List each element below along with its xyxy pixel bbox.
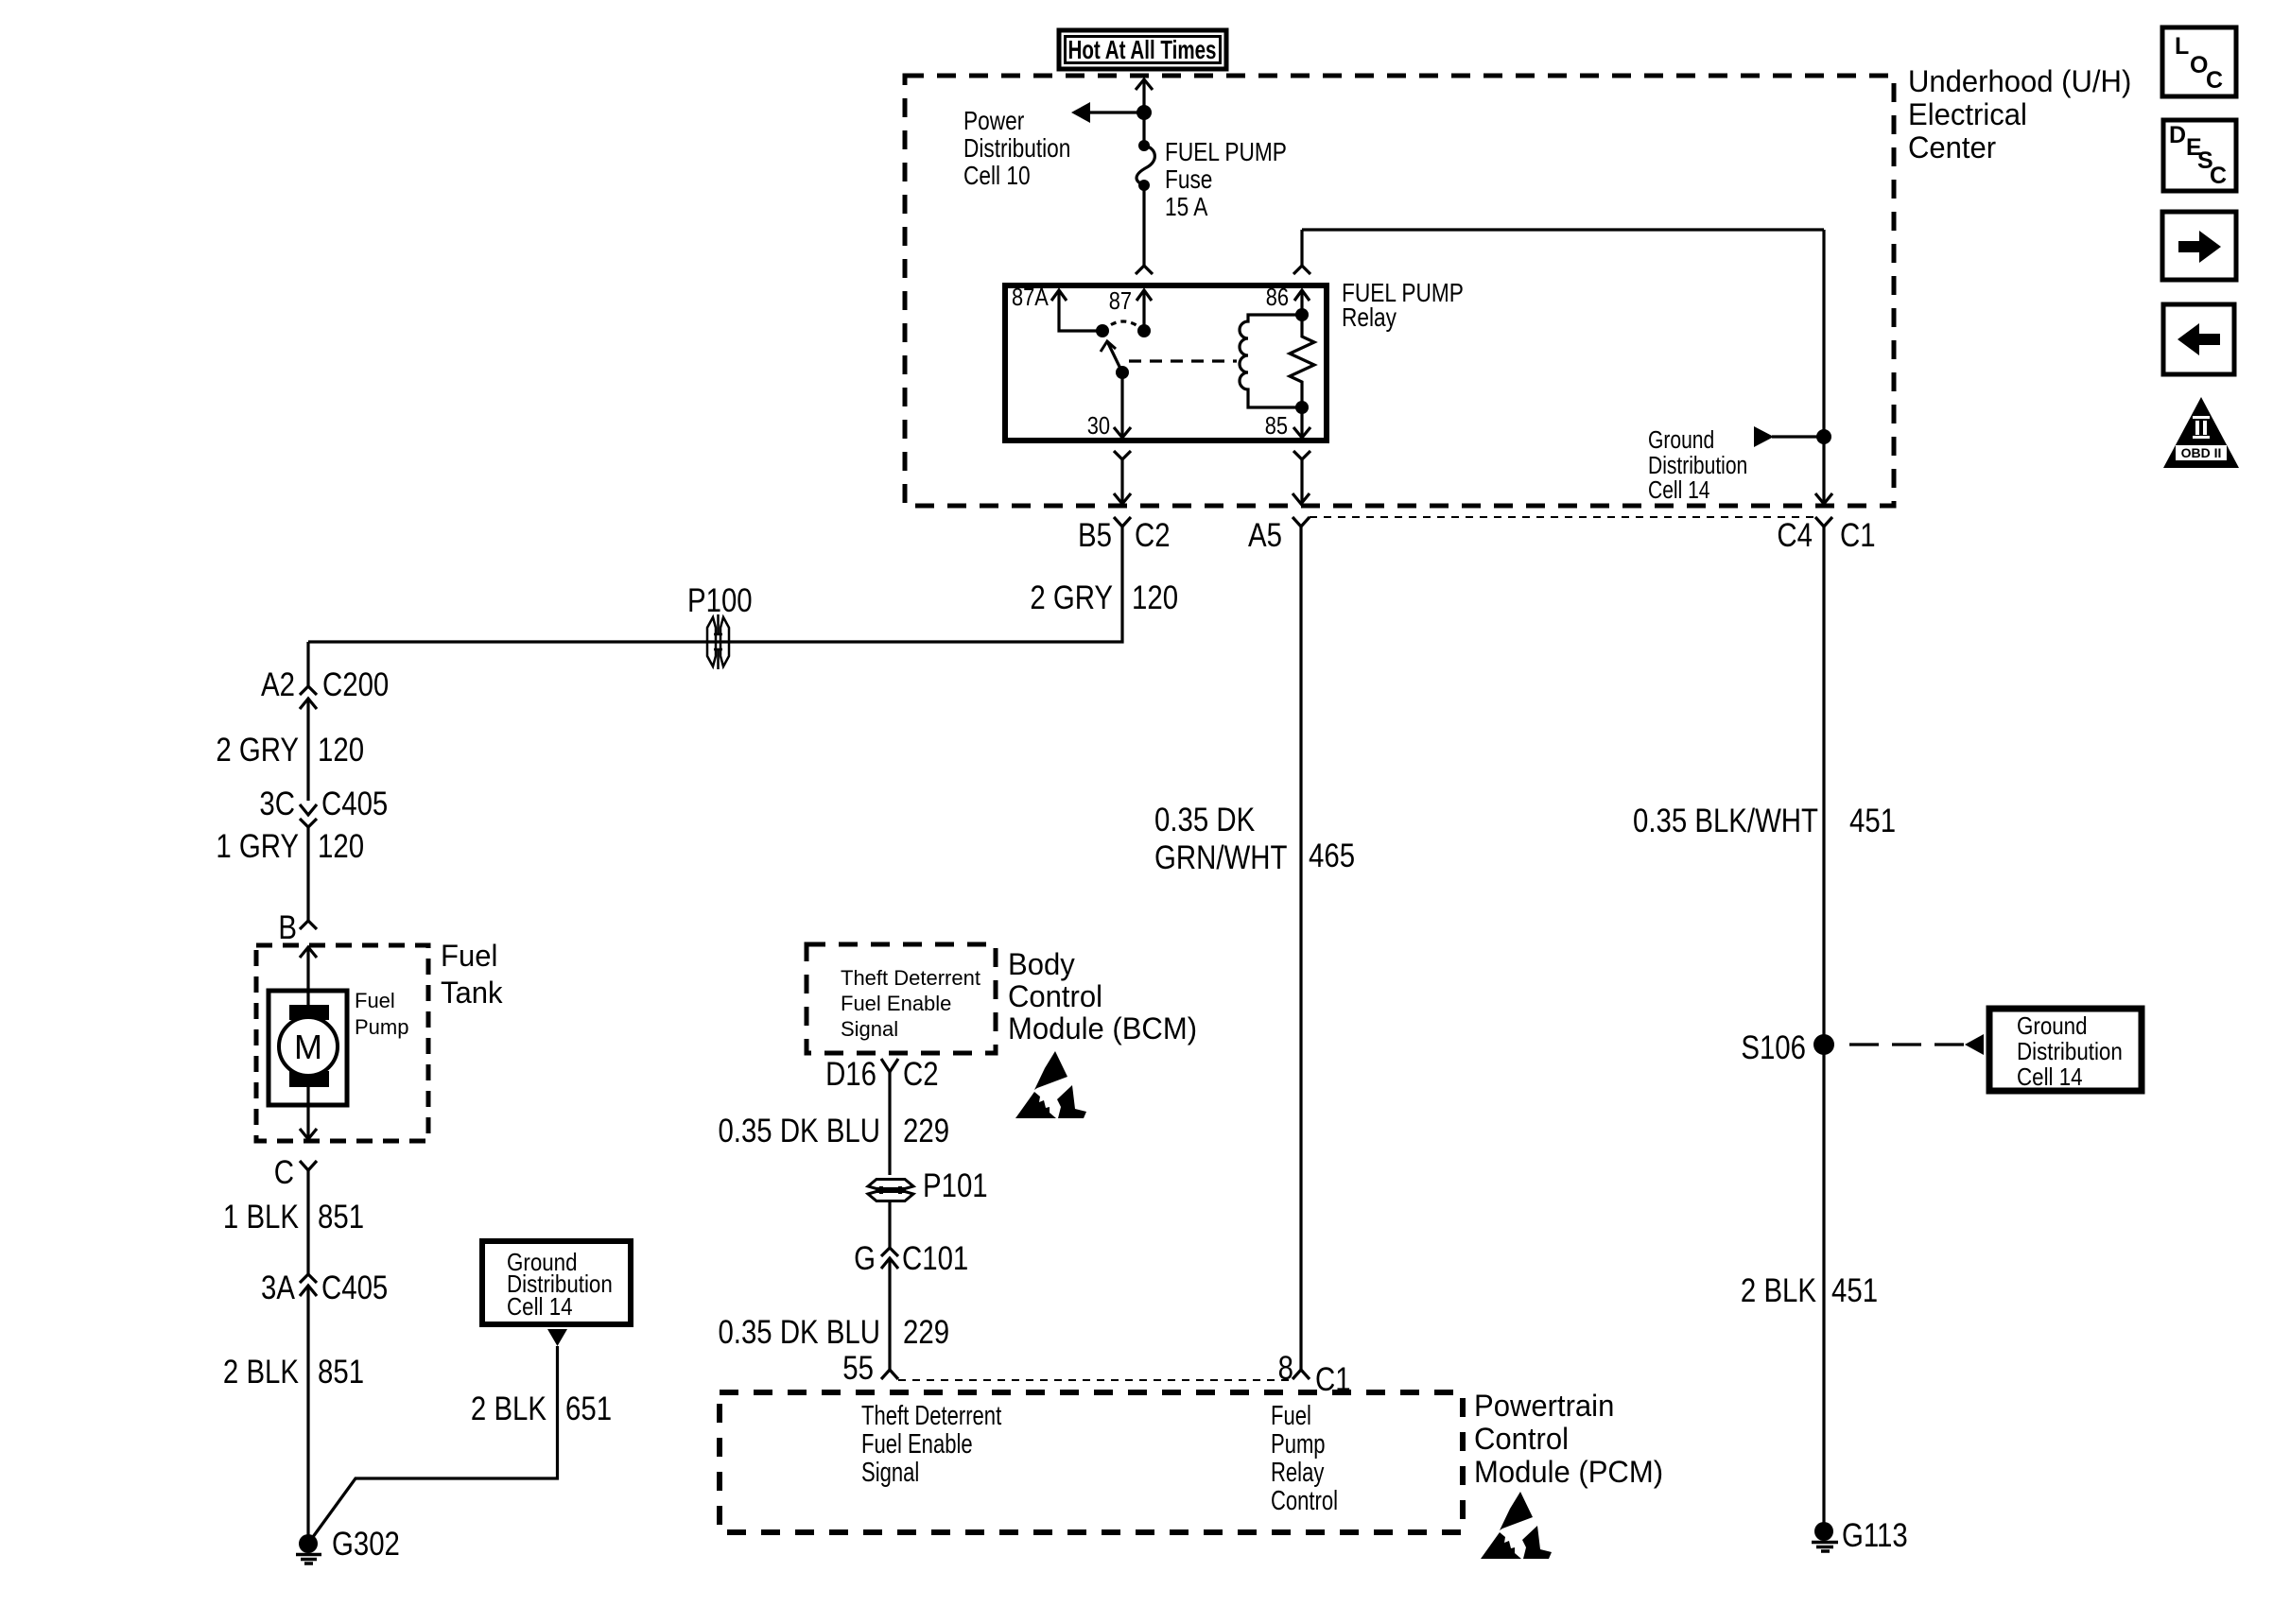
relay coil <box>1240 315 1302 407</box>
svg-text:Fuel: Fuel <box>441 939 497 974</box>
svg-text:G302: G302 <box>332 1526 400 1563</box>
svg-text:2 BLK: 2 BLK <box>223 1354 299 1391</box>
svg-text:0.35 BLK/WHT: 0.35 BLK/WHT <box>1633 803 1818 839</box>
label 2 BLK 651 <box>471 1391 612 1427</box>
dashed actuation line switch to coil <box>1129 359 1237 362</box>
svg-text:Distribution: Distribution <box>2017 1038 2123 1065</box>
svg-text:451: 451 <box>1831 1272 1878 1309</box>
svg-text:M: M <box>294 1028 322 1066</box>
wire Ground Distribution branch in UEC <box>1772 435 1824 438</box>
svg-text:229: 229 <box>903 1113 949 1149</box>
male arrow down at B5 exit <box>1114 493 1131 504</box>
svg-text:C1: C1 <box>1315 1361 1351 1398</box>
wire corner down to A2 <box>306 642 309 686</box>
label 0.35 DK GRN/WHT 465 <box>1154 802 1355 876</box>
svg-text:2 GRY: 2 GRY <box>1030 579 1113 616</box>
ESD symbol BCM <box>1015 1051 1086 1118</box>
svg-text:C: C <box>2206 67 2223 94</box>
motor M circle <box>279 1017 338 1076</box>
svg-text:Tank: Tank <box>441 976 503 1011</box>
thin dashed connector line 55 to 8 <box>898 1379 1293 1381</box>
pin 86 contact (arrow up) <box>1294 290 1310 315</box>
wire right column inside UEC down to border <box>1822 230 1825 504</box>
arrow from Ground Distribution text (solid right triangle) <box>1754 426 1774 447</box>
svg-text:87: 87 <box>1109 287 1132 315</box>
connector A2/C200 (female fork above, male arrow below) <box>300 686 317 801</box>
svg-text:Ground: Ground <box>2017 1012 2088 1040</box>
svg-text:P101: P101 <box>923 1167 988 1204</box>
icon DESC box <box>2163 120 2236 191</box>
svg-text:Pump: Pump <box>355 1015 408 1039</box>
connector female fork above relay pin 86 <box>1293 266 1310 274</box>
svg-text:B5: B5 <box>1078 517 1112 554</box>
svg-text:Power: Power <box>963 107 1025 136</box>
fuse FUEL PUMP 15A <box>1136 140 1154 191</box>
label Fuel Tank <box>441 939 503 1011</box>
pin 87A contact (arrow up and L wire) <box>1051 290 1101 331</box>
box PCM (dashed) <box>720 1392 1463 1532</box>
box Ground Distribution Cell 14 (right) <box>1989 1009 2142 1091</box>
svg-text:Fuel Enable: Fuel Enable <box>841 992 951 1015</box>
connector female fork above relay pin 87 <box>1136 266 1153 274</box>
svg-text:Cell 14: Cell 14 <box>2017 1063 2083 1091</box>
svg-text:Fuel: Fuel <box>355 989 395 1012</box>
box Hot At All Times <box>1059 30 1226 69</box>
connector D16/C2 female fork below BCM <box>881 1059 898 1072</box>
svg-text:Fuel: Fuel <box>1271 1401 1311 1431</box>
dashed reference line S106 to Ground Distribution <box>1849 1043 1965 1045</box>
svg-text:C2: C2 <box>903 1056 939 1093</box>
label 2 BLK 851 <box>223 1354 364 1391</box>
node junction right column <box>1816 429 1831 444</box>
pin 30 wire (pivot to box bottom, arrow down) <box>1114 372 1131 438</box>
svg-text:Module (BCM): Module (BCM) <box>1008 1011 1197 1046</box>
svg-text:C405: C405 <box>321 1270 388 1306</box>
svg-text:8: 8 <box>1278 1350 1293 1387</box>
label 0.35 DK BLU 229 (upper) <box>718 1113 949 1149</box>
svg-text:Ground: Ground <box>1648 427 1714 455</box>
label 0.35 DK BLU 229 (lower) <box>718 1314 949 1351</box>
svg-text:120: 120 <box>318 732 364 769</box>
ground G113 <box>1812 1522 1838 1551</box>
connector G/C101 (female fork above, male arrow below) <box>881 1248 898 1370</box>
wire Power Distribution branch <box>1089 111 1144 113</box>
svg-text:Fuel Enable: Fuel Enable <box>861 1429 973 1460</box>
svg-text:229: 229 <box>903 1314 949 1351</box>
connector female fork below relay pin 85 <box>1293 451 1310 459</box>
svg-text:120: 120 <box>1132 579 1178 616</box>
label Fuel Pump Relay Control (PCM) <box>1271 1401 1338 1516</box>
svg-text:Theft Deterrent: Theft Deterrent <box>861 1401 1001 1431</box>
svg-text:Control: Control <box>1271 1486 1338 1516</box>
svg-text:2 BLK: 2 BLK <box>1741 1272 1816 1309</box>
svg-text:C: C <box>274 1154 294 1191</box>
svg-text:Distribution: Distribution <box>1648 453 1747 480</box>
svg-text:Center: Center <box>1908 130 1996 165</box>
connector C4/C1 female fork <box>1815 517 1832 527</box>
svg-text:P100: P100 <box>687 582 753 619</box>
connector female fork below relay pin 30 <box>1114 451 1131 459</box>
icon left-arrow box <box>2163 304 2234 374</box>
svg-text:Theft Deterrent: Theft Deterrent <box>841 966 980 990</box>
svg-text:Relay: Relay <box>1271 1458 1324 1488</box>
svg-text:851: 851 <box>318 1199 364 1235</box>
svg-text:3C: 3C <box>259 786 295 822</box>
svg-text:Distribution: Distribution <box>963 134 1070 164</box>
svg-text:Hot At All Times: Hot At All Times <box>1068 35 1217 64</box>
label Body Control Module (BCM) <box>1008 947 1197 1046</box>
svg-text:C: C <box>2210 163 2227 189</box>
connector B5/C2 female fork <box>1114 517 1131 527</box>
node coil bottom junction <box>1295 401 1309 414</box>
splice P100 pass-through <box>707 614 729 669</box>
node coil top junction <box>1295 308 1309 321</box>
svg-text:Fuse: Fuse <box>1165 165 1212 195</box>
svg-text:C2: C2 <box>1135 517 1171 554</box>
motor brush top <box>289 1005 329 1020</box>
svg-text:C200: C200 <box>322 666 389 703</box>
box BCM Theft Deterrent Fuel Enable Signal (dashed) <box>807 944 996 1053</box>
svg-text:Pump: Pump <box>1271 1429 1326 1460</box>
svg-text:3A: 3A <box>261 1270 295 1306</box>
svg-text:86: 86 <box>1266 284 1289 311</box>
svg-text:Signal: Signal <box>841 1017 898 1041</box>
label Fuel Pump (small) <box>355 989 408 1039</box>
connector C below fuel tank (female fork) <box>300 1161 317 1170</box>
splice P101 pass-through <box>868 1180 913 1201</box>
svg-text:2 BLK: 2 BLK <box>471 1391 547 1427</box>
svg-text:30: 30 <box>1087 412 1110 440</box>
svg-text:651: 651 <box>565 1391 612 1427</box>
wire C down to 3A <box>306 1170 309 1274</box>
svg-text:Module (PCM): Module (PCM) <box>1474 1455 1663 1490</box>
connector B at fuel tank (female fork above, male arrow below) <box>300 921 317 1017</box>
svg-text:Underhood (U/H): Underhood (U/H) <box>1908 64 2131 99</box>
label 2 BLK 451 <box>1741 1272 1878 1309</box>
wire pin 85 to UEC border <box>1300 459 1303 502</box>
wire A5 down to PCM pin 8 <box>1299 527 1302 1370</box>
wire down to relay pin 86 <box>1300 230 1303 266</box>
male arrow down at C4 exit <box>1815 493 1832 504</box>
svg-text:87A: 87A <box>1012 284 1049 311</box>
wire B5 down to corner and left to P100 <box>308 527 1122 642</box>
ESD symbol PCM <box>1481 1492 1552 1559</box>
node switch pivot dot <box>1116 366 1129 379</box>
label 2 GRY 120 (at B5) <box>1030 579 1178 616</box>
arrow down from Ground Distribution box (solid triangle) <box>547 1329 567 1346</box>
node 87A contact dot <box>1096 324 1109 337</box>
label Ground Distribution Cell 14 (in UEC) <box>1648 427 1747 505</box>
svg-text:OBD II: OBD II <box>2181 445 2222 460</box>
label Underhood Electrical Center <box>1908 64 2131 165</box>
svg-text:C1: C1 <box>1840 517 1876 554</box>
icon right-arrow box <box>2162 212 2236 280</box>
thin dashed connector line A5 to C4 <box>1310 516 1815 518</box>
svg-text:C101: C101 <box>902 1240 968 1277</box>
svg-text:0.35 DK: 0.35 DK <box>1154 802 1256 838</box>
svg-text:55: 55 <box>842 1350 874 1387</box>
ground G302 <box>296 1534 321 1564</box>
node splice S106 <box>1813 1034 1834 1055</box>
connector 3C/C405 (male arrow down, female fork below) <box>300 804 317 921</box>
pin 85 wire (arrow down at box bottom) <box>1293 407 1310 438</box>
label FUEL PUMP Relay <box>1342 279 1464 333</box>
box Fuel Tank (dashed) <box>256 945 428 1141</box>
svg-text:Control: Control <box>1474 1422 1569 1457</box>
label 0.35 BLK/WHT 451 <box>1633 803 1896 839</box>
resistor zigzag 86-85 <box>1290 315 1314 407</box>
wire top-right interconnect 86 to right column <box>1302 228 1824 231</box>
label Powertrain Control Module (PCM) <box>1474 1389 1663 1490</box>
svg-text:15 A: 15 A <box>1165 193 1207 222</box>
wire P101 down to C101 <box>888 1201 891 1248</box>
svg-text:Body: Body <box>1008 947 1075 982</box>
svg-text:G113: G113 <box>1842 1517 1908 1554</box>
svg-text:S106: S106 <box>1741 1029 1806 1066</box>
svg-text:1 GRY: 1 GRY <box>216 828 299 865</box>
svg-text:Electrical: Electrical <box>1908 97 2027 132</box>
label 1 BLK 851 <box>223 1199 364 1235</box>
svg-text:120: 120 <box>318 828 364 865</box>
wire from Hot At All Times into UEC (male arrow up) <box>1136 79 1153 146</box>
connector pin 8 female fork into PCM <box>1293 1370 1310 1379</box>
svg-text:L: L <box>2175 33 2189 60</box>
box Ground Distribution Cell 14 (left) <box>482 1241 631 1324</box>
svg-text:Powertrain: Powertrain <box>1474 1389 1614 1424</box>
svg-text:1 BLK: 1 BLK <box>223 1199 299 1235</box>
svg-text:Cell 14: Cell 14 <box>507 1293 573 1321</box>
node junction at fuse feed <box>1136 105 1152 120</box>
label Theft Deterrent Fuel Enable Signal (PCM) <box>861 1401 1001 1488</box>
svg-text:A5: A5 <box>1248 517 1282 554</box>
pin 87 contact (arrow up) <box>1136 290 1152 331</box>
wire C4 down to G113 <box>1822 527 1825 1531</box>
arrow to Ground Distribution box (solid left triangle) <box>1965 1034 1984 1055</box>
male arrow down at A5 exit <box>1293 493 1310 504</box>
svg-text:0.35 DK BLU: 0.35 DK BLU <box>718 1113 880 1149</box>
svg-text:Relay: Relay <box>1342 303 1397 333</box>
icon OBD II triangle <box>2163 397 2239 468</box>
svg-text:Signal: Signal <box>861 1458 919 1488</box>
svg-text:G: G <box>854 1240 876 1277</box>
label 1 GRY 120 <box>216 828 364 865</box>
svg-text:Cell 10: Cell 10 <box>963 162 1031 191</box>
svg-text:Cell 14: Cell 14 <box>1648 477 1710 505</box>
motor brush bottom <box>289 1071 329 1087</box>
svg-text:85: 85 <box>1265 412 1288 440</box>
svg-text:C4: C4 <box>1777 517 1813 554</box>
relay FUEL PUMP Relay box <box>1005 285 1327 441</box>
svg-text:B: B <box>278 909 297 946</box>
motor fuel pump box <box>269 991 347 1105</box>
dashed arc between 87A and 87 contacts <box>1102 321 1144 331</box>
wire D16 down to P101 <box>888 1072 891 1175</box>
svg-text:451: 451 <box>1849 803 1896 839</box>
svg-text:D16: D16 <box>825 1056 876 1093</box>
svg-text:FUEL PUMP: FUEL PUMP <box>1165 138 1287 167</box>
label 2 GRY 120 (left) <box>216 732 364 769</box>
svg-text:Control: Control <box>1008 979 1102 1014</box>
svg-text:C405: C405 <box>321 786 388 822</box>
svg-text:A2: A2 <box>261 666 295 703</box>
svg-text:851: 851 <box>318 1354 364 1391</box>
label FUEL PUMP Fuse 15 A <box>1165 138 1287 222</box>
node 87 contact dot <box>1137 324 1151 337</box>
svg-text:2 GRY: 2 GRY <box>216 732 299 769</box>
svg-text:0.35 DK BLU: 0.35 DK BLU <box>718 1314 880 1351</box>
svg-text:GRN/WHT: GRN/WHT <box>1154 839 1287 876</box>
svg-text:465: 465 <box>1309 838 1355 874</box>
wire fuse to relay pin 87 <box>1142 185 1145 266</box>
connector A5 female fork <box>1293 517 1310 527</box>
connector pin 55 female fork into PCM <box>881 1370 898 1379</box>
svg-text:D: D <box>2169 122 2186 148</box>
wire 2 BLK 651 from box down, left, diagonal to G302 <box>310 1346 558 1541</box>
arrow to Power Distribution Cell 10 (solid left triangle) <box>1071 102 1090 123</box>
box Underhood Electrical Center (dashed) <box>905 76 1894 506</box>
wire pin 30 to UEC border <box>1120 459 1123 502</box>
wire motor to fuel tank bottom (arrow down) <box>300 1087 317 1139</box>
icon LOC box <box>2162 27 2236 96</box>
connector 3A/C405 (female fork above, male arrow below) <box>300 1274 317 1544</box>
label Power Distribution Cell 10 <box>963 107 1070 191</box>
switch arm with arrowhead <box>1101 341 1122 372</box>
